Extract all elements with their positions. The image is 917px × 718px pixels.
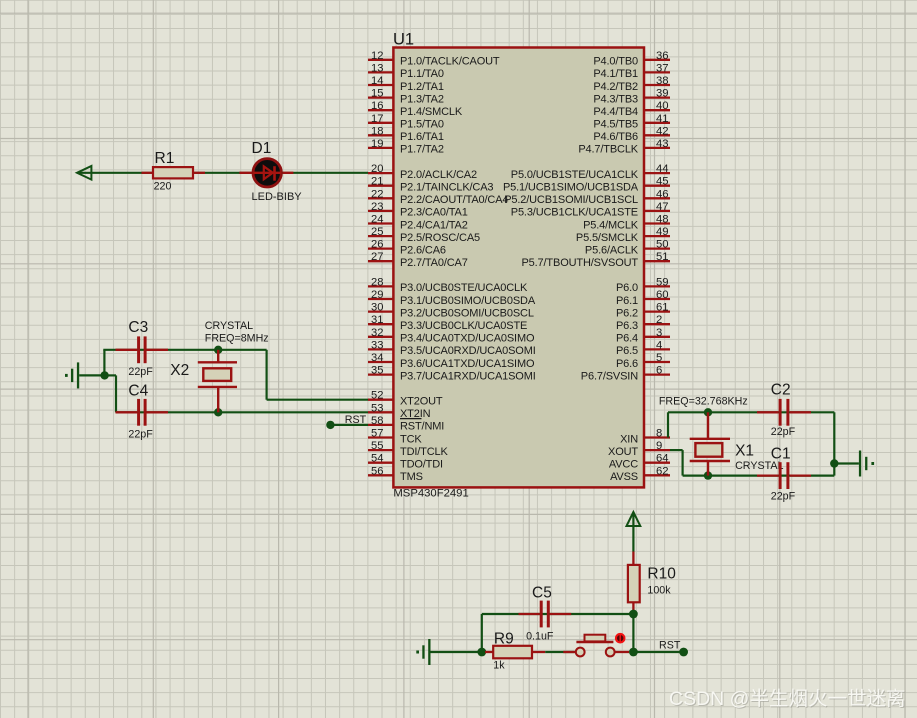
svg-text:P3.3/UCB0CLK/UCA0STE: P3.3/UCB0CLK/UCA0STE (400, 320, 527, 332)
U1 pin 43 (P4.7/TBCLK) (578, 138, 670, 156)
D1 value LED-BIBY (252, 191, 303, 203)
resistor R1 (142, 167, 206, 178)
junction at ground tap (100, 371, 108, 379)
LED D1 (239, 159, 293, 187)
wire: R9 to button (545, 651, 574, 653)
svg-text:P6.5: P6.5 (616, 345, 638, 357)
D1 reference label (252, 140, 272, 157)
U1 pin 21 (P2.1/TAINCLK/CA3) (368, 176, 493, 194)
U1 pin 50 (P5.6/ACLK) (585, 239, 670, 257)
U1 pin 15 (P1.3/TA2) (368, 88, 444, 106)
svg-text:C1: C1 (771, 445, 791, 462)
U1 pin 8 (XIN) (620, 428, 670, 446)
svg-text:56: 56 (371, 465, 383, 477)
U1 pin 25 (P2.5/ROSC/CA5) (368, 226, 480, 244)
svg-text:P2.2/CAOUT/TA0/CA4: P2.2/CAOUT/TA0/CA4 (400, 194, 508, 206)
U1 pin 4 (P6.5) (616, 339, 670, 357)
svg-text:D1: D1 (252, 140, 272, 157)
svg-text:P3.6/UCA1TXD/UCA1SIMO: P3.6/UCA1TXD/UCA1SIMO (400, 358, 535, 370)
U1 pin 60 (P6.1) (616, 289, 670, 307)
svg-text:P1.0/TACLK/CAOUT: P1.0/TACLK/CAOUT (400, 56, 500, 68)
button interactive indicator (615, 633, 626, 644)
svg-text:34: 34 (371, 352, 383, 364)
svg-text:1k: 1k (493, 659, 505, 671)
svg-text:51: 51 (656, 251, 669, 263)
svg-text:P5.0/UCB1STE/UCA1CLK: P5.0/UCB1STE/UCA1CLK (511, 169, 639, 181)
U1 pin 52 (XT2OUT) (368, 390, 443, 408)
capacitor C1 (757, 462, 811, 489)
wire: RST terminal to U1 pin 58 (330, 424, 368, 426)
U1 value label MSP430F2491 (393, 488, 468, 500)
svg-text:30: 30 (371, 302, 383, 314)
svg-text:X1: X1 (735, 443, 754, 460)
U1 pin 59 (P6.0) (616, 276, 670, 294)
C2 reference label (771, 382, 791, 399)
C4 reference label (128, 382, 148, 399)
svg-text:P1.5/TA0: P1.5/TA0 (400, 119, 444, 131)
svg-text:8: 8 (656, 428, 662, 440)
wire: ground to junction (79, 374, 104, 376)
svg-text:LED-BIBY: LED-BIBY (252, 191, 303, 203)
svg-text:XT2OUT: XT2OUT (400, 396, 443, 408)
svg-text:220: 220 (154, 180, 172, 192)
svg-text:24: 24 (371, 214, 383, 226)
svg-text:42: 42 (656, 125, 669, 137)
C3 value 22pF (128, 366, 153, 378)
ground (left of C3/C4) (65, 362, 79, 388)
U1 pin 35 (P3.7/UCA1RXD/UCA1SOMI) (368, 365, 536, 383)
U1 pin 16 (P1.4/SMCLK) (368, 100, 463, 118)
svg-text:P6.3: P6.3 (616, 320, 638, 332)
svg-text:59: 59 (656, 276, 669, 288)
svg-text:CRYSTAL: CRYSTAL (205, 320, 253, 332)
crystal X2 (198, 350, 237, 413)
U1 pin 62 (AVSS) (610, 465, 670, 483)
svg-text:P4.5/TB5: P4.5/TB5 (593, 119, 638, 131)
svg-text:P6.6: P6.6 (616, 358, 638, 370)
X1 property FREQ=32.768KHz (659, 395, 748, 407)
svg-text:C3: C3 (128, 319, 148, 336)
svg-text:P6.7/SVSIN: P6.7/SVSIN (581, 370, 638, 382)
svg-text:50: 50 (656, 239, 669, 251)
svg-text:P4.1/TB1: P4.1/TB1 (593, 68, 638, 80)
svg-text:3: 3 (656, 327, 662, 339)
C4 value 22pF (128, 429, 153, 441)
svg-text:P4.7/TBCLK: P4.7/TBCLK (578, 144, 638, 156)
junction below crystal X2 (214, 408, 222, 416)
svg-text:15: 15 (371, 88, 383, 100)
U1 pin 40 (P4.4/TB4) (593, 100, 670, 118)
U1 pin 19 (P1.7/TA2) (368, 138, 444, 156)
svg-text:TDI/TCLK: TDI/TCLK (400, 446, 449, 458)
U1 pin 29 (P3.1/UCB0SIMO/UCB0SDA) (368, 289, 536, 307)
svg-text:P2.5/ROSC/CA5: P2.5/ROSC/CA5 (400, 232, 480, 244)
svg-text:46: 46 (656, 188, 669, 200)
wire: junction up to C3 row (103, 350, 105, 376)
svg-text:RST: RST (345, 414, 367, 426)
U1 pin 37 (P4.1/TB1) (593, 62, 670, 80)
svg-text:P1.1/TA0: P1.1/TA0 (400, 68, 444, 80)
svg-text:36: 36 (656, 50, 669, 62)
node RST (bottom) (659, 639, 681, 651)
svg-text:60: 60 (656, 289, 669, 301)
wire: C3 row across to XT2OUT corner (103, 349, 266, 351)
svg-text:54: 54 (371, 453, 383, 465)
svg-text:53: 53 (371, 402, 383, 414)
svg-text:27: 27 (371, 251, 383, 263)
svg-text:62: 62 (656, 465, 669, 477)
C5 reference label (532, 584, 552, 601)
svg-text:20: 20 (371, 163, 383, 175)
svg-text:44: 44 (656, 163, 669, 175)
svg-text:22pF: 22pF (771, 490, 796, 502)
wire: junction to right ground (834, 462, 859, 464)
U1 pin 3 (P6.4) (616, 327, 670, 345)
RST terminal dot near pin 58 (326, 421, 334, 429)
U1 pin 2 (P6.3) (616, 314, 670, 332)
U1 pin 53 (XT2IN) (368, 402, 431, 420)
power terminal arrow (up) (627, 512, 641, 526)
svg-text:P6.4: P6.4 (616, 333, 638, 345)
junction below crystal X1 (704, 471, 712, 479)
junction at left vertical on R9 row (477, 648, 486, 657)
ground (right of C1/C2) (859, 451, 874, 477)
svg-text:18: 18 (371, 125, 383, 137)
wire: junction jog down to C4 row (105, 375, 116, 412)
svg-text:P1.4/SMCLK: P1.4/SMCLK (400, 106, 463, 118)
svg-text:FREQ=32.768KHz: FREQ=32.768KHz (659, 395, 748, 407)
U1 pin 46 (P5.2/UCB1SOMI/UCB1SCL) (504, 188, 670, 206)
svg-text:P4.3/TB3: P4.3/TB3 (593, 93, 638, 105)
svg-text:P2.0/ACLK/CA2: P2.0/ACLK/CA2 (400, 169, 477, 181)
svg-text:22pF: 22pF (771, 426, 796, 438)
U1 pin 23 (P2.3/CA0/TA1) (368, 201, 468, 219)
svg-text:C2: C2 (771, 382, 791, 399)
U1 pin 36 (P4.0/TB0) (593, 50, 670, 68)
U1 pin 57 (TCK) (368, 428, 422, 446)
svg-text:19: 19 (371, 138, 383, 150)
svg-text:61: 61 (656, 302, 669, 314)
svg-text:TCK: TCK (400, 433, 422, 445)
svg-text:16: 16 (371, 100, 383, 112)
svg-text:R10: R10 (647, 565, 676, 582)
U1 pin 9 (XOUT) (608, 440, 670, 458)
svg-text:6: 6 (656, 365, 662, 377)
X2 property FREQ=8MHz (205, 332, 269, 344)
R9 value 1k (493, 659, 505, 671)
svg-text:22pF: 22pF (128, 429, 153, 441)
svg-text:14: 14 (371, 75, 383, 87)
wire: C5 row from left vertical to junction (482, 613, 634, 615)
svg-text:48: 48 (656, 214, 669, 226)
U1 pin 27 (P2.7/TA0/CA7) (368, 251, 468, 269)
svg-text:41: 41 (656, 113, 669, 125)
U1 pin 41 (P4.5/TB5) (593, 113, 670, 131)
svg-text:P5.1/UCB1SIMO/UCB1SDA: P5.1/UCB1SIMO/UCB1SDA (503, 182, 639, 194)
wire: U1 pin 8 XIN up to top row (667, 412, 669, 437)
svg-text:47: 47 (656, 201, 669, 213)
svg-text:28: 28 (371, 276, 383, 288)
svg-text:P5.7/TBOUTH/SVSOUT: P5.7/TBOUTH/SVSOUT (522, 257, 639, 269)
svg-text:37: 37 (656, 62, 669, 74)
junction above crystal X1 (704, 408, 712, 416)
svg-text:13: 13 (371, 62, 383, 74)
svg-text:P4.0/TB0: P4.0/TB0 (593, 56, 638, 68)
svg-text:P2.1/TAINCLK/CA3: P2.1/TAINCLK/CA3 (400, 182, 493, 194)
R9 reference label (494, 630, 514, 647)
svg-text:P2.3/CA0/TA1: P2.3/CA0/TA1 (400, 207, 468, 219)
svg-text:26: 26 (371, 239, 383, 251)
U1 pin 12 (P1.0/TACLK/CAOUT) (368, 50, 500, 68)
svg-text:X2: X2 (170, 362, 189, 379)
U1 pin 18 (P1.6/TA1) (368, 125, 444, 143)
wire: ground to R9 (431, 651, 486, 653)
U1 pin 48 (P5.4/MCLK) (583, 214, 670, 232)
RST terminal dot (bottom) (679, 648, 688, 657)
op-amp U1 body (MSP430F2491 IC) (393, 48, 644, 488)
svg-text:U1: U1 (393, 31, 414, 49)
R1 value 220 (154, 180, 172, 192)
svg-text:4: 4 (656, 339, 662, 351)
svg-text:AVCC: AVCC (609, 459, 638, 471)
R10 reference label (647, 565, 676, 582)
svg-text:P4.6/TB6: P4.6/TB6 (593, 131, 638, 143)
wire: C4 row across to U1 pin 53 (XT2IN) (116, 411, 368, 413)
svg-text:35: 35 (371, 365, 383, 377)
input terminal arrow (left) (77, 166, 91, 180)
resistor R10 (628, 552, 640, 615)
crystal X1 (690, 412, 730, 475)
svg-text:TMS: TMS (400, 471, 423, 483)
svg-text:2: 2 (656, 314, 662, 326)
U1 pin 31 (P3.3/UCB0CLK/UCA0STE) (368, 314, 527, 332)
U1 pin 38 (P4.2/TB2) (593, 75, 670, 93)
svg-text:RST: RST (659, 639, 681, 651)
U1 pin 32 (P3.4/UCA0TXD/UCA0SIMO) (368, 327, 535, 345)
svg-text:P5.3/UCB1CLK/UCA1STE: P5.3/UCB1CLK/UCA1STE (511, 207, 638, 219)
svg-text:XIN: XIN (620, 433, 638, 445)
svg-text:P1.6/TA1: P1.6/TA1 (400, 131, 444, 143)
push button (reset switch) (563, 635, 629, 657)
svg-text:P6.0: P6.0 (616, 282, 638, 294)
svg-text:52: 52 (371, 390, 383, 402)
svg-text:P6.2: P6.2 (616, 307, 638, 319)
C2 value 22pF (771, 426, 796, 438)
svg-text:100k: 100k (647, 585, 671, 597)
svg-text:P3.0/UCB0STE/UCA0CLK: P3.0/UCB0STE/UCA0CLK (400, 282, 528, 294)
U1 pin 28 (P3.0/UCB0STE/UCA0CLK) (368, 276, 528, 294)
svg-text:C5: C5 (532, 584, 552, 601)
U1 pin 56 (TMS) (368, 465, 423, 483)
U1 pin 30 (P3.2/UCB0SOMI/UCB0SCL) (368, 302, 534, 320)
svg-text:MSP430F2491: MSP430F2491 (393, 488, 468, 500)
capacitor C4 (116, 399, 169, 426)
svg-text:P5.2/UCB1SOMI/UCB1SCL: P5.2/UCB1SOMI/UCB1SCL (504, 194, 638, 206)
wire: power arrow down to R10 (632, 513, 634, 552)
U1 pin 47 (P5.3/UCB1CLK/UCA1STE) (511, 201, 670, 219)
svg-text:43: 43 (656, 138, 669, 150)
svg-text:P2.6/CA6: P2.6/CA6 (400, 244, 446, 256)
junction above crystal X2 (214, 346, 222, 354)
svg-text:RST/NMI: RST/NMI (400, 421, 444, 433)
R1 reference label (155, 150, 175, 167)
svg-text:XOUT: XOUT (608, 446, 638, 458)
svg-text:22: 22 (371, 188, 383, 200)
junction at right ground tap (830, 459, 838, 467)
U1 pin 44 (P5.0/UCB1STE/UCA1CLK) (511, 163, 670, 181)
svg-text:P3.5/UCA0RXD/UCA0SOMI: P3.5/UCA0RXD/UCA0SOMI (400, 345, 536, 357)
svg-text:40: 40 (656, 100, 669, 112)
X1 value CRYSTAL (735, 460, 783, 472)
svg-text:P1.7/TA2: P1.7/TA2 (400, 144, 444, 156)
svg-text:21: 21 (371, 176, 383, 188)
svg-text:P3.7/UCA1RXD/UCA1SOMI: P3.7/UCA1RXD/UCA1SOMI (400, 370, 536, 382)
C1 reference label (771, 445, 791, 462)
X2 reference label (170, 362, 189, 379)
junction at button output (629, 648, 638, 657)
U1 pin 34 (P3.6/UCA1TXD/UCA1SIMO) (368, 352, 535, 370)
svg-text:25: 25 (371, 226, 383, 238)
U1 pin 42 (P4.6/TB6) (593, 125, 670, 143)
resistor R9 (485, 646, 545, 659)
svg-text:C4: C4 (128, 382, 148, 399)
svg-text:57: 57 (371, 428, 383, 440)
svg-text:58: 58 (371, 415, 383, 427)
svg-text:P1.2/TA1: P1.2/TA1 (400, 81, 444, 93)
svg-text:5: 5 (656, 352, 662, 364)
R10 value 100k (647, 585, 671, 597)
wire: right vertical from junction to button row (632, 614, 634, 652)
svg-text:CSDN @半生烟火一世迷离: CSDN @半生烟火一世迷离 (669, 688, 905, 710)
svg-text:64: 64 (656, 453, 669, 465)
X1 reference label (735, 443, 754, 460)
capacitor C5 (519, 601, 572, 628)
svg-text:55: 55 (371, 440, 383, 452)
U1 pin 26 (P2.6/CA6) (368, 239, 446, 257)
C1 value 22pF (771, 490, 796, 502)
U1 pin 45 (P5.1/UCB1SIMO/UCB1SDA) (503, 176, 670, 194)
U1 pin 55 (TDI/TCLK) (368, 440, 449, 458)
svg-text:P1.3/TA2: P1.3/TA2 (400, 93, 444, 105)
U1 pin 64 (AVCC) (609, 453, 670, 471)
svg-text:P3.2/UCB0SOMI/UCB0SCL: P3.2/UCB0SOMI/UCB0SCL (400, 307, 534, 319)
U1 pin 49 (P5.5/SMCLK) (576, 226, 670, 244)
U1 pin 58 (RST/NMI) (368, 415, 444, 433)
wire: XT2OUT down-corner to U1 pin 52 (267, 350, 368, 400)
node RST (left) (345, 414, 367, 426)
svg-text:12: 12 (371, 50, 383, 62)
wire: top row XIN to C2 to right vertical (668, 411, 834, 413)
X2 property CRYSTAL (205, 320, 253, 332)
svg-text:P3.1/UCB0SIMO/UCB0SDA: P3.1/UCB0SIMO/UCB0SDA (400, 295, 536, 307)
svg-text:31: 31 (371, 314, 383, 326)
svg-text:P5.4/MCLK: P5.4/MCLK (583, 219, 639, 231)
svg-text:9: 9 (656, 440, 662, 452)
capacitor C3 (116, 336, 169, 363)
wire: left vertical from C5 row to R9 row (481, 614, 483, 652)
svg-text:TDO/TDI: TDO/TDI (400, 459, 443, 471)
svg-text:29: 29 (371, 289, 383, 301)
svg-text:P4.4/TB4: P4.4/TB4 (593, 106, 638, 118)
svg-text:38: 38 (656, 75, 669, 87)
junction below R10 (629, 610, 638, 619)
svg-text:45: 45 (656, 176, 669, 188)
U1 pin 24 (P2.4/CA1/TA2) (368, 214, 468, 232)
watermark CSDN (669, 688, 906, 711)
svg-text:49: 49 (656, 226, 669, 238)
svg-text:P5.5/SMCLK: P5.5/SMCLK (576, 232, 639, 244)
svg-text:P3.4/UCA0TXD/UCA0SIMO: P3.4/UCA0TXD/UCA0SIMO (400, 333, 535, 345)
U1 pin 20 (P2.0/ACLK/CA2) (368, 163, 477, 181)
svg-text:P4.2/TB2: P4.2/TB2 (593, 81, 638, 93)
C5 value 0.1uF (526, 630, 554, 642)
svg-text:AVSS: AVSS (610, 471, 638, 483)
svg-text:R1: R1 (155, 150, 175, 167)
svg-text:FREQ=8MHz: FREQ=8MHz (205, 332, 269, 344)
U1 pin 51 (P5.7/TBOUTH/SVSOUT) (522, 251, 671, 269)
U1 pin 39 (P4.3/TB3) (593, 88, 670, 106)
svg-text:P5.6/ACLK: P5.6/ACLK (585, 244, 639, 256)
U1 pin 17 (P1.5/TA0) (368, 113, 444, 131)
ground (left of R9) (416, 639, 430, 665)
wire: U1 pin 9 XOUT to down-corner (670, 450, 683, 476)
C3 reference label (128, 319, 148, 336)
svg-text:P2.7/TA0/CA7: P2.7/TA0/CA7 (400, 257, 468, 269)
svg-text:39: 39 (656, 88, 669, 100)
U1 pin 61 (P6.2) (616, 302, 670, 320)
U1 pin 14 (P1.2/TA1) (368, 75, 444, 93)
U1 pin 6 (P6.7/SVSIN) (581, 365, 670, 383)
svg-text:R9: R9 (494, 630, 514, 647)
svg-text:17: 17 (371, 113, 383, 125)
svg-text:P2.4/CA1/TA2: P2.4/CA1/TA2 (400, 219, 468, 231)
svg-text:22pF: 22pF (128, 366, 153, 378)
svg-text:0.1uF: 0.1uF (526, 630, 554, 642)
svg-text:33: 33 (371, 339, 383, 351)
U1 pin 13 (P1.1/TA0) (368, 62, 444, 80)
U1 pin 5 (P6.6) (616, 352, 670, 370)
capacitor C2 (757, 399, 811, 426)
svg-text:23: 23 (371, 201, 383, 213)
wire: left arrow terminal to R1 to D1 to U1 pin 20 (77, 172, 368, 174)
wire: button junction to RST terminal (633, 651, 683, 653)
wire: bottom row XOUT to C1 to right vertical (683, 475, 835, 477)
svg-text:32: 32 (371, 327, 383, 339)
svg-text:P6.1: P6.1 (616, 295, 638, 307)
U1 reference label (393, 31, 414, 49)
U1 pin 33 (P3.5/UCA0RXD/UCA0SOMI) (368, 339, 536, 357)
U1 pin 54 (TDO/TDI) (368, 453, 443, 471)
U1 pin 22 (P2.2/CAOUT/TA0/CA4) (368, 188, 508, 206)
wire: right vertical joining C2 and C1 rows (833, 412, 835, 475)
